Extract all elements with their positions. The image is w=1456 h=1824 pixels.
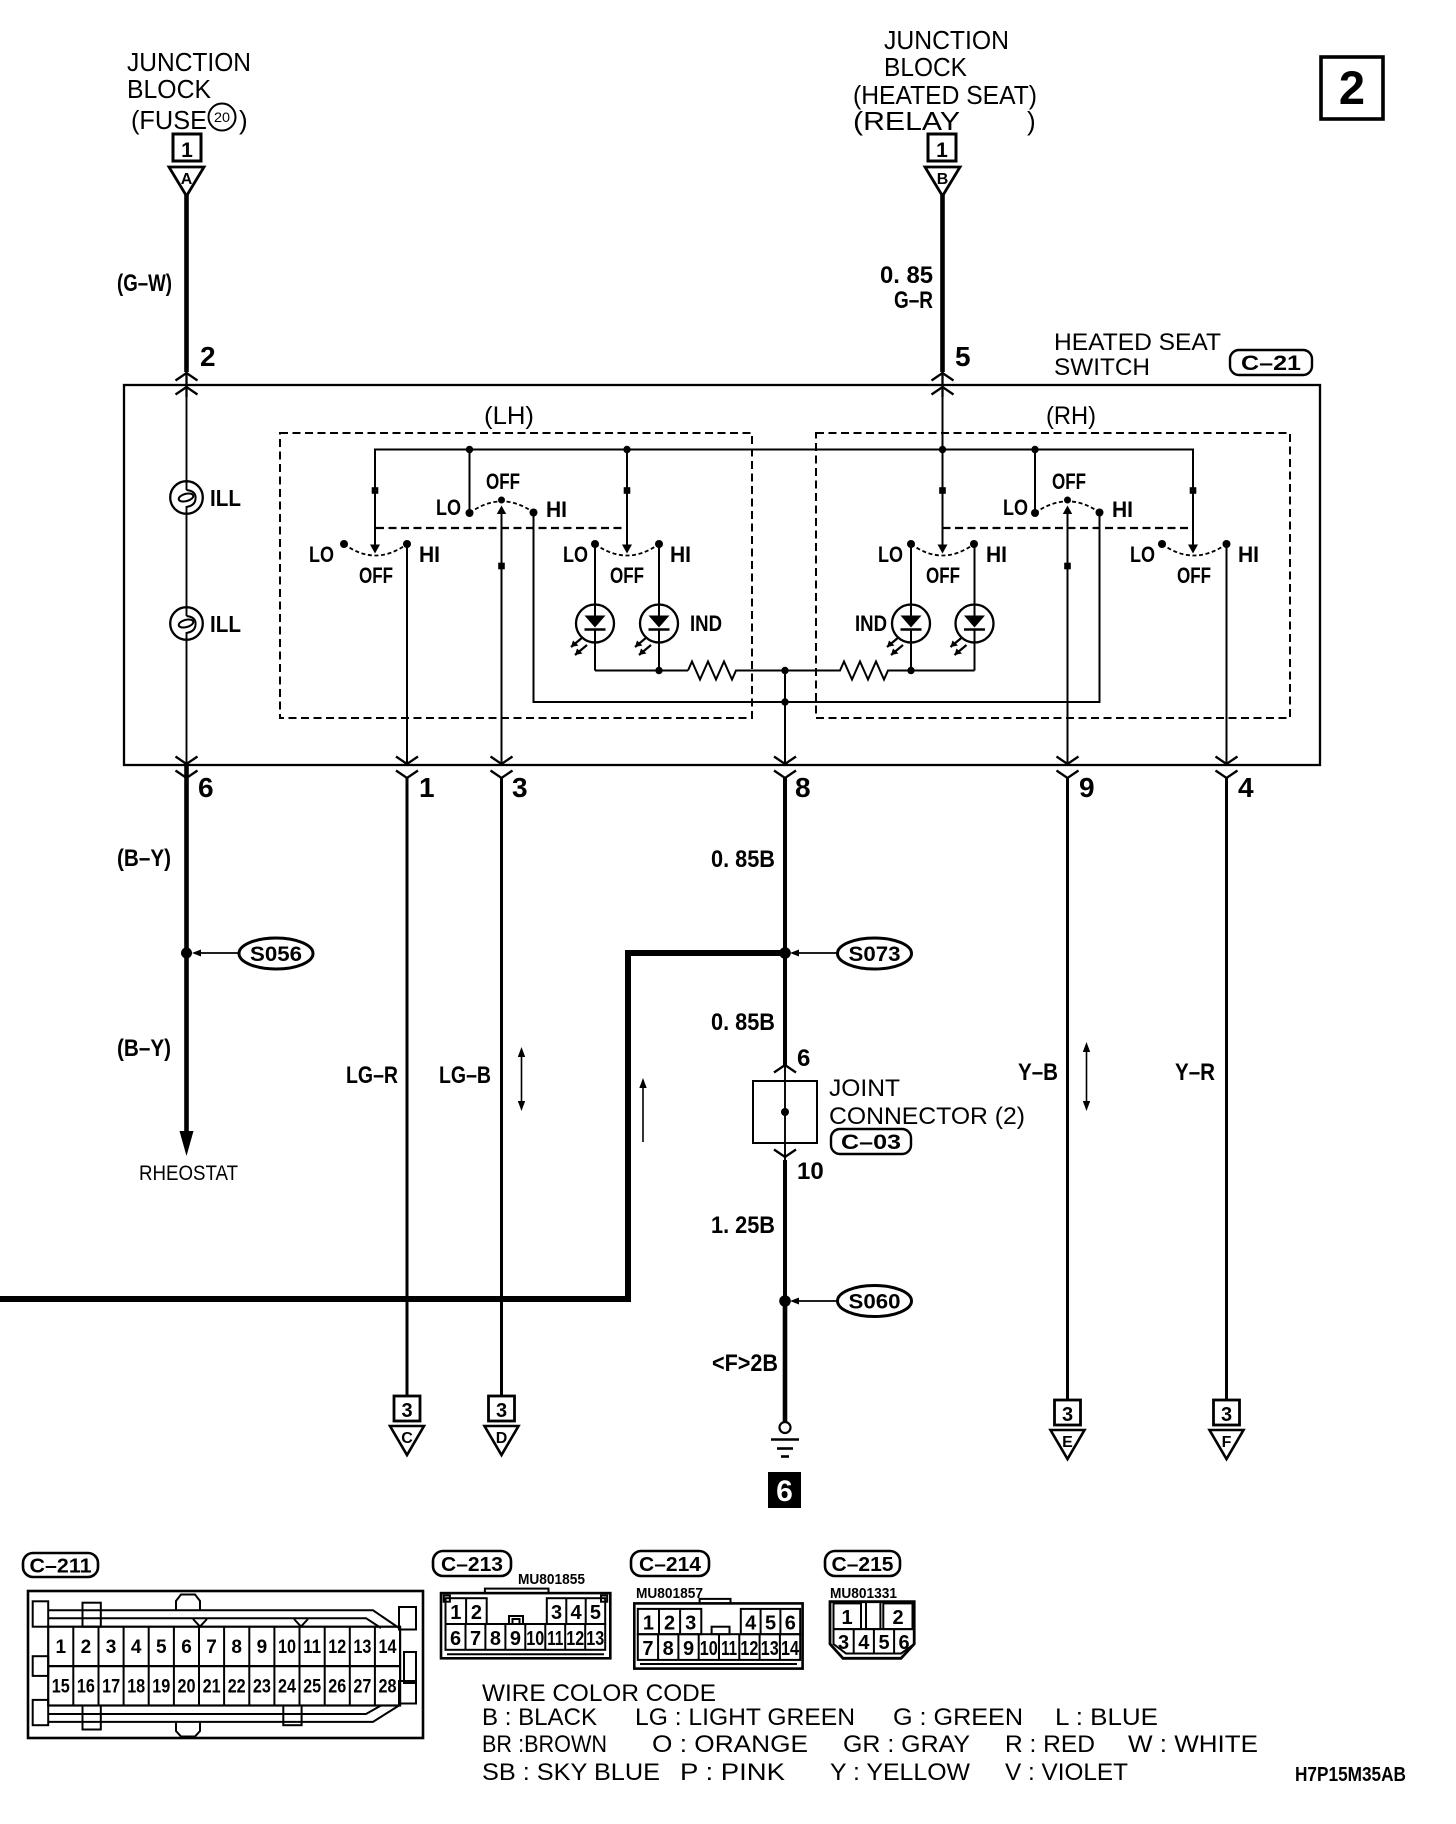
svg-text:2: 2 — [892, 1607, 903, 1629]
LH mid switch OFF pole dot — [498, 497, 505, 504]
wire pin4 to F — [1225, 778, 1228, 1401]
svg-text:5: 5 — [878, 1632, 889, 1654]
svg-text:1: 1 — [419, 772, 435, 803]
joint connector box C-03 — [753, 1081, 817, 1143]
svg-text:1: 1 — [936, 139, 948, 162]
svg-text:LO: LO — [309, 542, 334, 567]
wire to ground 2B — [783, 1301, 788, 1422]
svg-text:OFF: OFF — [1052, 469, 1086, 494]
svg-text:6: 6 — [797, 1045, 810, 1072]
svg-text:B : BLACK: B : BLACK — [482, 1704, 597, 1731]
LH mid switch pole arrow up — [497, 506, 506, 515]
svg-text:O : ORANGE: O : ORANGE — [652, 1731, 808, 1758]
svg-text:HI: HI — [546, 497, 567, 522]
wire pin1 internal — [406, 544, 408, 765]
connector code C-214 — [631, 1551, 709, 1576]
svg-text:8: 8 — [490, 1628, 501, 1650]
svg-text:): ) — [1027, 106, 1036, 136]
LH right switch LO contact — [591, 540, 599, 548]
svg-text:20: 20 — [214, 109, 230, 125]
svg-text:LG–R: LG–R — [346, 1062, 398, 1089]
svg-text:18: 18 — [127, 1677, 145, 1698]
connector C-214 pin numbers — [642, 1613, 799, 1661]
node dot LH right — [623, 446, 630, 453]
LH HI branch wire to pin8 — [534, 513, 786, 703]
RH mid switch arc — [1035, 501, 1100, 513]
component label HEATED SEAT SWITCH — [1054, 329, 1221, 381]
svg-text:1. 25B: 1. 25B — [711, 1212, 775, 1239]
svg-text:BLOCK: BLOCK — [127, 74, 212, 104]
svg-text:8: 8 — [663, 1638, 674, 1660]
RH right switch arc — [1162, 544, 1227, 556]
svg-text:(FUSE: (FUSE — [131, 105, 207, 135]
svg-text:S073: S073 — [849, 943, 901, 966]
svg-text:HEATED SEAT: HEATED SEAT — [1054, 329, 1221, 356]
square node LH left — [372, 487, 379, 494]
svg-text:HI: HI — [419, 542, 440, 567]
RH right switch common arrow — [1188, 545, 1198, 554]
svg-text:10: 10 — [278, 1637, 296, 1658]
svg-text:6: 6 — [181, 1637, 192, 1658]
page number box 2 — [1321, 57, 1383, 119]
svg-text:H7P15M35AB: H7P15M35AB — [1295, 1764, 1406, 1786]
wire pin2 feed (G-W) thick — [184, 195, 189, 372]
svg-text:20: 20 — [178, 1677, 196, 1698]
svg-text:(G–W): (G–W) — [117, 270, 172, 297]
heavy branch wire from S073 to page edge — [0, 953, 785, 1299]
connector view C-214 — [634, 1599, 802, 1669]
terminal box 3 (C) — [394, 1396, 420, 1422]
svg-text:9: 9 — [1079, 772, 1095, 803]
svg-text:JOINT: JOINT — [829, 1075, 900, 1102]
svg-text:HI: HI — [1238, 542, 1259, 567]
svg-text:WIRE COLOR CODE: WIRE COLOR CODE — [482, 1680, 716, 1707]
svg-text:23: 23 — [253, 1677, 271, 1698]
svg-text:12: 12 — [566, 1628, 584, 1650]
svg-text:3: 3 — [512, 772, 528, 803]
bottom edge chevrons pin 9 — [1057, 757, 1079, 779]
svg-text:21: 21 — [203, 1677, 221, 1698]
rheostat arrow — [180, 1131, 194, 1156]
svg-text:4: 4 — [570, 1602, 582, 1624]
svg-text:6: 6 — [776, 1475, 793, 1508]
svg-text:3: 3 — [838, 1632, 849, 1654]
svg-text:OFF: OFF — [359, 563, 393, 588]
svg-text:3: 3 — [401, 1400, 412, 1422]
resistor RH — [785, 662, 911, 680]
svg-text:E: E — [1062, 1434, 1073, 1451]
svg-text:B: B — [937, 171, 949, 188]
svg-text:13: 13 — [353, 1637, 371, 1658]
svg-text:7: 7 — [206, 1637, 217, 1658]
svg-text:JUNCTION: JUNCTION — [127, 47, 251, 77]
wire pin9 to E — [1066, 778, 1069, 1401]
RH right switch feed wire — [1192, 450, 1194, 546]
svg-text:0. 85B: 0. 85B — [711, 1009, 775, 1036]
svg-text:C–21: C–21 — [1241, 352, 1301, 375]
svg-text:0. 85B: 0. 85B — [711, 846, 775, 873]
svg-text:19: 19 — [152, 1677, 170, 1698]
connector box 1 (B) — [928, 134, 956, 162]
svg-text:2: 2 — [471, 1602, 482, 1624]
svg-text:2: 2 — [200, 341, 216, 372]
LH LED cathode bus — [595, 670, 688, 672]
terminal box 3 (E) — [1055, 1400, 1081, 1426]
triangle terminal A — [169, 167, 204, 196]
RH left switch arc — [911, 544, 974, 556]
svg-text:LG : LIGHT GREEN: LG : LIGHT GREEN — [635, 1704, 855, 1731]
svg-text:Y : YELLOW: Y : YELLOW — [830, 1759, 970, 1786]
svg-text:C–214: C–214 — [639, 1554, 702, 1576]
LED LH 1 — [571, 544, 614, 671]
svg-text:<F>2B: <F>2B — [712, 1350, 778, 1377]
svg-text:OFF: OFF — [486, 469, 520, 494]
node dot LH mid — [466, 446, 473, 453]
triangle terminal B — [925, 167, 960, 196]
resistor LH — [688, 662, 785, 680]
svg-text:ILL: ILL — [210, 611, 241, 637]
svg-text:1: 1 — [56, 1637, 67, 1658]
svg-text:2: 2 — [664, 1613, 675, 1635]
svg-text:HI: HI — [986, 542, 1007, 567]
wire pin8 external upper — [783, 778, 787, 1065]
RH mid switch HI contact — [1096, 509, 1104, 517]
svg-text:7: 7 — [470, 1628, 481, 1650]
LH right switch HI contact — [655, 540, 663, 548]
terminal box 3 (D) — [489, 1396, 515, 1422]
svg-text:8: 8 — [231, 1637, 242, 1658]
LH mid switch HI contact — [530, 509, 538, 517]
connector view C-211 — [28, 1591, 423, 1738]
svg-text:V : VIOLET: V : VIOLET — [1005, 1759, 1128, 1786]
svg-text:MU801855: MU801855 — [518, 1571, 585, 1588]
svg-text:(LH): (LH) — [484, 402, 534, 430]
wire pin6 to rheostat (B-Y) — [184, 765, 189, 1135]
LH bus wire top — [375, 450, 1193, 546]
svg-text:C–03: C–03 — [841, 1131, 901, 1154]
svg-text:28: 28 — [379, 1677, 397, 1698]
connector code C-213 — [433, 1551, 511, 1576]
svg-text:CONNECTOR (2): CONNECTOR (2) — [829, 1103, 1025, 1130]
wire pin4 internal — [1226, 544, 1228, 765]
svg-text:4: 4 — [1238, 772, 1254, 803]
triangle terminal D — [485, 1426, 519, 1455]
direction arrow up near pin8 elbow — [639, 1078, 646, 1142]
connector code C-21 — [1230, 350, 1312, 375]
wire pin8 internal — [784, 671, 786, 766]
bottom edge chevrons pin 4 — [1216, 757, 1238, 779]
svg-text:0. 85: 0. 85 — [880, 262, 933, 289]
junction block A label — [127, 47, 251, 135]
svg-text:(B–Y): (B–Y) — [117, 1035, 171, 1062]
svg-text:C–211: C–211 — [30, 1556, 92, 1578]
node dot pin8 top — [781, 667, 788, 674]
wire label 0.85 G-R — [880, 262, 933, 314]
svg-text:10: 10 — [526, 1628, 544, 1650]
svg-text:4: 4 — [858, 1632, 870, 1654]
LH right switch labels — [563, 542, 691, 588]
svg-text:3: 3 — [106, 1637, 117, 1658]
svg-text:9: 9 — [257, 1637, 268, 1658]
svg-text:JUNCTION: JUNCTION — [884, 25, 1009, 55]
svg-text:9: 9 — [510, 1628, 521, 1650]
svg-text:16: 16 — [77, 1677, 95, 1698]
svg-text:D: D — [496, 1430, 508, 1447]
svg-text:G–R: G–R — [894, 287, 933, 314]
RH left switch common arrow — [938, 545, 948, 554]
square node pin9 wire — [1064, 563, 1071, 570]
connector view C-215 — [830, 1602, 914, 1659]
svg-text:C: C — [401, 1430, 413, 1447]
svg-text:3: 3 — [685, 1613, 696, 1635]
wire pin1 to C — [406, 778, 409, 1397]
svg-text:5: 5 — [765, 1613, 776, 1635]
LH mid switch feed wire — [469, 450, 471, 514]
svg-text:12: 12 — [740, 1638, 758, 1660]
svg-text:15: 15 — [52, 1677, 70, 1698]
svg-text:4: 4 — [745, 1613, 757, 1635]
svg-text:G : GREEN: G : GREEN — [893, 1704, 1023, 1731]
svg-text:6: 6 — [450, 1628, 461, 1650]
wire pin2 to pin6 inside box — [186, 385, 188, 765]
bottom edge chevrons pin 3 — [491, 757, 513, 779]
node dot RH mid — [1031, 446, 1038, 453]
LH mid switch LO contact — [466, 509, 474, 517]
LH inner dashed line — [376, 527, 627, 529]
svg-text:BR :BROWN: BR :BROWN — [482, 1731, 607, 1758]
RH left switch HI contact — [970, 540, 978, 548]
svg-text:Y–R: Y–R — [1175, 1059, 1215, 1086]
svg-text:1: 1 — [841, 1607, 852, 1629]
svg-text:12: 12 — [328, 1637, 346, 1658]
svg-text:3: 3 — [1221, 1404, 1232, 1426]
svg-text:OFF: OFF — [610, 563, 644, 588]
svg-text:17: 17 — [102, 1677, 120, 1698]
RH HI branch wire to pin8 — [785, 513, 1100, 703]
svg-text:LO: LO — [878, 542, 903, 567]
svg-text:C–213: C–213 — [441, 1554, 503, 1576]
svg-text:LG–B: LG–B — [439, 1062, 491, 1089]
svg-text:3: 3 — [551, 1602, 562, 1624]
svg-text:BLOCK: BLOCK — [884, 52, 968, 82]
LH dashed enclosure — [280, 433, 752, 718]
svg-text:13: 13 — [761, 1638, 779, 1660]
LH left switch common arrow — [370, 545, 380, 554]
LH mid switch labels — [436, 469, 567, 522]
square node RH right — [1190, 487, 1197, 494]
square node pin3 wire — [498, 563, 505, 570]
connector chevrons pin 2 — [176, 372, 198, 397]
RH LED cathode bus — [911, 670, 975, 672]
svg-text:MU801857: MU801857 — [636, 1585, 703, 1602]
RH feed wire pin5 internal — [942, 385, 944, 545]
svg-text:27: 27 — [353, 1677, 371, 1698]
svg-text:25: 25 — [303, 1677, 321, 1698]
svg-text:5: 5 — [156, 1637, 167, 1658]
svg-text:SWITCH: SWITCH — [1054, 354, 1150, 381]
ground symbol — [771, 1422, 799, 1457]
svg-text:F: F — [1222, 1434, 1232, 1451]
svg-text:3: 3 — [1062, 1404, 1073, 1426]
RH right switch HI contact — [1223, 540, 1231, 548]
splice S056 — [181, 938, 313, 969]
svg-text:LO: LO — [563, 542, 588, 567]
svg-text:MU801331: MU801331 — [830, 1585, 897, 1602]
splice S060 — [779, 1286, 911, 1317]
direction arrow double pin3 — [518, 1047, 525, 1111]
connector view C-213 — [441, 1589, 610, 1659]
wire pin3 internal — [501, 508, 503, 765]
svg-text:Y–B: Y–B — [1018, 1059, 1058, 1086]
LED RH 1 (IND) — [855, 544, 930, 671]
svg-text:1: 1 — [643, 1613, 654, 1635]
svg-text:W : WHITE: W : WHITE — [1128, 1731, 1258, 1758]
svg-text:HI: HI — [1112, 497, 1133, 522]
svg-text:S056: S056 — [250, 943, 302, 966]
svg-text:22: 22 — [228, 1677, 246, 1698]
svg-text:RHEOSTAT: RHEOSTAT — [139, 1162, 238, 1185]
connector box 1 (A) — [173, 134, 201, 162]
svg-text:L : BLUE: L : BLUE — [1055, 1704, 1158, 1731]
joint connector labels — [829, 1075, 1025, 1130]
triangle terminal C — [390, 1426, 424, 1455]
svg-text:LO: LO — [1130, 542, 1155, 567]
svg-text:(RELAY: (RELAY — [853, 106, 960, 136]
svg-text:HI: HI — [670, 542, 691, 567]
LH left switch LO contact — [340, 540, 348, 548]
bottom edge chevrons pin 8 — [774, 757, 796, 779]
svg-text:7: 7 — [642, 1638, 653, 1660]
svg-text:2: 2 — [81, 1637, 92, 1658]
svg-text:IND: IND — [855, 611, 887, 636]
RH mid switch labels — [1003, 469, 1133, 522]
square node RH left — [939, 487, 946, 494]
node dot LH led bus — [655, 667, 662, 674]
LED LH 2 (IND) — [635, 544, 722, 671]
wire pin5 feed 0.85 G-R thick — [940, 195, 945, 372]
LH right switch feed wire — [626, 450, 628, 546]
junction block B label — [853, 25, 1037, 136]
svg-text:3: 3 — [496, 1400, 507, 1422]
square node LH right — [624, 487, 631, 494]
wire color code line 3 — [482, 1759, 1128, 1786]
svg-text:4: 4 — [131, 1637, 142, 1658]
bottom edge chevrons pin 1 — [396, 757, 418, 779]
svg-text:): ) — [239, 105, 248, 135]
svg-text:26: 26 — [328, 1677, 346, 1698]
RH mid switch OFF pole dot — [1064, 497, 1071, 504]
svg-text:(B–Y): (B–Y) — [117, 845, 171, 872]
svg-text:10: 10 — [700, 1638, 718, 1660]
connector C-213 pin numbers — [450, 1602, 604, 1650]
svg-text:5: 5 — [590, 1602, 601, 1624]
RH left switch LO contact — [907, 540, 915, 548]
svg-text:13: 13 — [586, 1628, 604, 1650]
wire pin9 internal — [1067, 508, 1069, 765]
svg-text:(RH): (RH) — [1046, 402, 1096, 430]
svg-text:LO: LO — [1003, 495, 1028, 520]
illumination lamp ILL 2 — [170, 607, 241, 640]
wire pin3 to D — [500, 778, 503, 1397]
connector code C-215 — [825, 1551, 900, 1576]
terminal box 3 (F) — [1214, 1400, 1240, 1426]
RH mid switch feed wire — [1034, 450, 1036, 514]
wire pin8 external lower 1.25B — [783, 1160, 787, 1301]
RH dashed enclosure — [816, 433, 1290, 718]
svg-text:5: 5 — [955, 341, 971, 372]
RH inner dashed line — [943, 527, 1194, 529]
LED RH 2 — [951, 544, 994, 671]
RH right switch labels — [1130, 542, 1259, 588]
wire color code line 1 — [482, 1704, 1158, 1731]
svg-text:OFF: OFF — [1177, 563, 1211, 588]
svg-text:9: 9 — [683, 1638, 694, 1660]
svg-text:R : RED: R : RED — [1005, 1731, 1095, 1758]
svg-text:OFF: OFF — [926, 563, 960, 588]
connector C-211 pin numbers — [52, 1637, 397, 1698]
heated seat switch outer box — [124, 385, 1320, 765]
triangle terminal E — [1051, 1430, 1085, 1459]
svg-text:2: 2 — [1339, 61, 1365, 114]
svg-text:6: 6 — [785, 1613, 796, 1635]
svg-text:6: 6 — [198, 772, 214, 803]
svg-text:C–215: C–215 — [832, 1554, 894, 1576]
joint connector exit chevron — [774, 1150, 796, 1158]
ground reference black box 6 — [768, 1472, 801, 1508]
node dot pin5 bus — [939, 446, 946, 453]
svg-text:P : PINK: P : PINK — [680, 1759, 785, 1786]
svg-text:LO: LO — [436, 495, 461, 520]
svg-text:11: 11 — [303, 1637, 321, 1658]
svg-text:24: 24 — [278, 1677, 296, 1698]
connector chevrons pin 5 — [932, 372, 954, 397]
LH left switch HI contact — [403, 540, 411, 548]
splice S073 — [779, 938, 911, 969]
bottom edge chevrons pin 6 — [176, 757, 198, 779]
connector code C-03 — [831, 1129, 911, 1154]
svg-text:A: A — [181, 171, 193, 188]
triangle terminal F — [1210, 1430, 1244, 1459]
LH left switch labels — [309, 542, 440, 588]
svg-text:10: 10 — [797, 1158, 824, 1185]
direction arrow double pin9 — [1083, 1042, 1090, 1111]
svg-text:S060: S060 — [849, 1291, 901, 1314]
svg-text:6: 6 — [899, 1632, 910, 1654]
RH right switch LO contact — [1158, 540, 1166, 548]
svg-text:14: 14 — [379, 1637, 397, 1658]
wire color code line 2 — [482, 1731, 1258, 1758]
illumination lamp ILL 1 — [170, 481, 241, 514]
svg-text:11: 11 — [547, 1628, 563, 1650]
svg-text:IND: IND — [690, 611, 722, 636]
svg-text:ILL: ILL — [210, 485, 241, 511]
node dot RH led bus — [907, 667, 914, 674]
node dot pin8 mid — [781, 698, 788, 705]
wire through joint connector — [784, 1065, 786, 1160]
LH mid switch arc — [470, 501, 534, 513]
LH right switch common arrow — [622, 545, 632, 554]
svg-text:SB : SKY BLUE: SB : SKY BLUE — [482, 1759, 660, 1786]
connector code C-211 — [23, 1553, 98, 1578]
connector C-215 pin numbers — [838, 1607, 910, 1654]
RH mid switch pole arrow up — [1063, 506, 1072, 515]
svg-text:GR : GRAY: GR : GRAY — [843, 1731, 970, 1758]
RH left switch labels — [878, 542, 1007, 588]
joint connector entry chevron — [774, 1065, 796, 1073]
RH mid switch LO contact — [1031, 509, 1039, 517]
LH left switch arc — [344, 544, 407, 556]
svg-text:1: 1 — [181, 139, 193, 162]
